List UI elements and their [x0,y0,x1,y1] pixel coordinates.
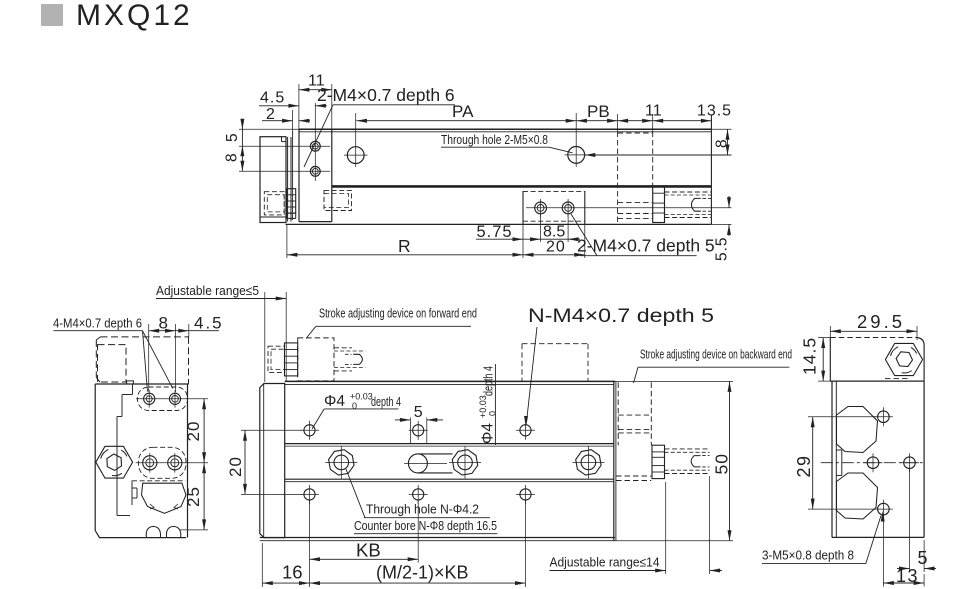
leader N-M4 [527,327,538,422]
adjuster rod hidden (dashed) [665,191,712,193]
plan hole row3 col1 (M4) [304,489,315,500]
top view slide table bottom edge (thick) [332,185,712,188]
svg-text:Through hole N-Φ4.2: Through hole N-Φ4.2 [366,502,479,517]
left view bottom feet [146,526,160,537]
dim 4.5 (end plate) [259,105,299,107]
right view lobe neck [841,450,843,476]
dim 20 (cushion) [584,224,586,258]
top view body bottom edge [286,223,712,225]
adjuster rod lines [287,137,289,222]
svg-text:Stroke adjusting device on for: Stroke adjusting device on forward end [319,306,477,321]
top view body right end [710,115,712,224]
plan hole row3 col2 (M4) [413,489,424,500]
svg-text:11: 11 [645,103,662,120]
adjuster nut (right, side view) [653,187,665,223]
dim 5 (left) [239,128,299,130]
svg-text:PA: PA [452,102,474,121]
svg-text:2-M4×0.7 depth 6: 2-M4×0.7 depth 6 [317,85,455,105]
plan counterbore hole 2 [452,450,477,475]
svg-text:5.75: 5.75 [477,223,513,241]
svg-text:depth 4: depth 4 [371,395,401,409]
svg-text:4-M4×0.7 depth 6: 4-M4×0.7 depth 6 [53,316,142,331]
bwd adjuster body (plan, dashed) [617,382,619,445]
svg-text:25: 25 [184,486,203,507]
svg-text:Φ4: Φ4 [324,393,345,410]
end plate hole centerlines [239,145,330,147]
dim 20 (plan) [241,429,302,431]
svg-text:+0.03: +0.03 [478,395,488,418]
svg-text:4.5: 4.5 [260,90,285,107]
svg-text:2: 2 [266,106,275,123]
right view hole mid-right [904,457,916,469]
dim 25 (left view) [180,529,208,531]
dim 11 (right) [618,120,653,122]
fwd adjuster nut (plan) [285,343,298,376]
left view body outline [95,384,186,538]
left view bolt head [96,446,133,478]
dim 8.5 [540,214,542,242]
left view top holes [136,398,208,400]
svg-text:Stroke adjusting device on bac: Stroke adjusting device on backward end [640,347,792,362]
dim 5.5 (right) [711,223,731,225]
dim 29.5 [829,326,831,340]
port hole B (M5) [568,147,585,164]
svg-text:0: 0 [488,411,498,416]
dim 8 (left) [241,146,243,172]
dim R [286,224,288,258]
end plate [292,132,294,220]
svg-text:29: 29 [794,454,814,477]
left view mid hole boss (dashed) [139,447,187,478]
bwd adjuster nut (plan) [652,445,665,478]
svg-text:14.5: 14.5 [800,337,820,375]
plan left end plate [260,384,285,538]
svg-text:29.5: 29.5 [857,311,905,332]
port hole B centerlines [565,154,589,156]
plan hole row3 col3 (M4) [520,489,531,500]
leader counterbore [346,469,365,518]
end plate hole 1 (M4) [310,141,320,151]
svg-text:8: 8 [714,139,731,148]
plan hole row1 col2 (M4) [413,425,424,436]
head cover step line / leader [585,154,732,156]
svg-text:+0.03: +0.03 [350,392,373,402]
svg-text:N-M4×0.7 depth 5: N-M4×0.7 depth 5 [528,306,714,327]
dim 16 [261,543,263,587]
dashed plate (plan top) [522,343,588,345]
dim 5 (right view) [909,468,911,572]
right view hole bottom (M5) [878,503,890,515]
fwd adjuster socket (plan, dashed) [268,346,285,372]
dim 8 (right) [711,128,731,130]
dim 14.5 [818,337,832,339]
right view centerline [821,462,923,464]
dim 4.5 (left view) [188,324,190,337]
cushion block [522,191,524,224]
port hole A (M5) [347,147,364,164]
dim 8 (left view) [148,324,150,392]
svg-text:20: 20 [546,239,566,256]
cushion hole 2 [562,202,574,214]
svg-text:(M/2-1)×KB: (M/2-1)×KB [376,563,469,583]
dim 13.5 [653,120,712,122]
svg-text:8.5: 8.5 [543,224,565,241]
svg-text:8: 8 [159,314,168,333]
fwd adjuster rod (plan, dashed) [334,347,352,349]
dim 20 (left view) [203,399,205,463]
fwd adjuster body (plan) [298,338,334,381]
left view mid holes [136,462,208,464]
dim PB [576,120,617,122]
left view internal profile [132,384,134,395]
left view window [142,483,187,513]
svg-text:20: 20 [184,421,203,442]
svg-text:Through hole 2-M5×0.8: Through hole 2-M5×0.8 [441,132,548,147]
svg-text:16: 16 [282,562,303,583]
end plate hole 2 (M4) [310,166,320,176]
plan table edge lines [285,443,614,445]
svg-text:0: 0 [352,401,357,411]
forward stroke adjuster block (side view) [260,137,286,223]
dim 13 [882,514,884,587]
port hole A centerlines [344,154,368,156]
svg-text:Adjustable range≤5: Adjustable range≤5 [156,283,259,298]
right view upper lobe [837,407,878,453]
right view hole mid-left [867,457,879,469]
right view bolt head [885,343,922,375]
svg-text:5.5: 5.5 [714,236,731,261]
dim PA [356,120,576,122]
svg-text:PB: PB [587,102,610,121]
svg-text:3-M5×0.8 depth 8: 3-M5×0.8 depth 8 [762,548,854,563]
label phi4 depth4 (vertical) [478,364,498,445]
plan body outline [285,380,615,382]
svg-text:R: R [398,236,411,256]
svg-text:Counter bore N-Φ8 depth 16.5: Counter bore N-Φ8 depth 16.5 [354,518,497,533]
dim 11 (end plate) [299,89,332,91]
svg-text:2-M4×0.7 depth 5: 2-M4×0.7 depth 5 [577,236,715,256]
hidden slider end (dashed) [324,191,352,211]
svg-text:KB: KB [356,540,381,561]
cushion hole 1 [535,202,547,214]
svg-text:Adjustable range≤14: Adjustable range≤14 [550,555,660,570]
hidden adjuster socket (dashed) [264,192,284,215]
dim 5.75 [476,238,523,240]
dim (M/2-1)xKB [525,500,527,587]
svg-text:13: 13 [896,566,919,586]
right view hole top (M5) [878,411,890,423]
plan slot [418,453,453,455]
bwd adjuster rod (plan, dashed) [665,448,710,450]
svg-text:Φ4: Φ4 [480,423,497,444]
svg-text:MXQ12: MXQ12 [76,0,193,32]
svg-text:4.5: 4.5 [194,314,224,333]
svg-text:5: 5 [414,404,423,421]
backward adjuster hidden (dashed, side view) [617,132,619,225]
svg-text:13.5: 13.5 [697,103,732,120]
plan counterbore hole 3 [576,450,601,475]
plan hole row1 col3 (M4) [520,425,531,436]
left view sensor tab [127,381,134,384]
dim 5 (slot) [409,418,411,444]
left view adjuster block (hidden) [98,345,127,382]
rod end fork (side view) [691,198,700,211]
left view top hole boss (dashed) [138,387,188,411]
dim 50 [615,380,733,382]
left view hidden table (dashed) [101,336,189,338]
right view top block [829,338,831,382]
cushion centerline [526,207,732,209]
svg-text:depth 4: depth 4 [482,366,496,396]
top view body top edge [299,128,711,130]
left view window (dashed top) [132,480,186,482]
right view body outline [831,381,833,537]
dim 2 (top left) [262,120,293,122]
plan counterbore hole 1 [329,450,354,475]
dim KB [417,500,419,563]
adjuster lock nut (left) [287,189,296,213]
title square [41,4,63,26]
svg-text:5: 5 [224,133,241,142]
svg-text:50: 50 [712,453,732,474]
dim 29 [808,416,878,418]
svg-text:5: 5 [918,548,928,568]
plan hole row1 col1 (M4) [304,425,315,436]
svg-text:8: 8 [224,153,241,162]
right view lower lobe [837,473,878,519]
svg-text:20: 20 [226,456,245,477]
